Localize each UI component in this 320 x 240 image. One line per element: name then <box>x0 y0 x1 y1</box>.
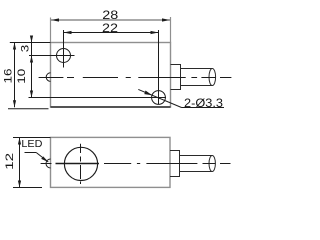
hole 2 circle <box>152 91 166 105</box>
dimension 22 line <box>64 32 159 34</box>
top view plug cylinder <box>181 69 216 86</box>
bottom view centerline <box>41 163 231 165</box>
dimension 28 extension line right <box>170 17 172 43</box>
top view left-edge semicircle <box>46 73 50 82</box>
dimension 12 line <box>19 138 21 188</box>
dimension 10 top arrow <box>30 56 33 63</box>
LED leader arrow <box>41 156 48 162</box>
2-Ø3.3 leader underline <box>182 107 225 109</box>
hole 1 circle <box>57 49 71 63</box>
top view body bottom edge (dark) <box>51 106 171 108</box>
dimension 22 right arrow <box>151 31 159 34</box>
dimension 3 outside arrow <box>30 36 33 43</box>
bottom view big circle <box>64 147 97 180</box>
bottom view vertical centerline <box>80 144 82 184</box>
hole 1 horizontal extension line <box>29 55 75 57</box>
bottom edge extension line <box>8 108 49 110</box>
dimension 12 bottom extension line <box>13 187 42 189</box>
LED leader underline <box>25 152 37 154</box>
LED leader diagonal <box>36 153 48 163</box>
bottom view connector block <box>170 151 180 177</box>
svg-text:12: 12 <box>4 153 16 170</box>
dimension 16 bottom arrow <box>13 100 16 107</box>
dimension 16 line <box>14 43 16 108</box>
top view body rectangle <box>51 43 171 108</box>
svg-text:10: 10 <box>16 69 28 84</box>
top view centerline <box>39 77 232 79</box>
dimension 12 top extension line <box>13 137 51 139</box>
svg-text:22: 22 <box>102 21 118 35</box>
dimension 28 right arrow <box>162 18 170 21</box>
dimension 28 extension line left <box>50 18 52 43</box>
dimension 12 bottom arrow <box>18 181 21 188</box>
dimension 22 left arrow <box>64 31 72 34</box>
hole 2 horizontal extension line <box>29 97 167 99</box>
hole 1 vertical extension line <box>63 30 65 68</box>
2-Ø3.3 leader line <box>138 89 181 107</box>
dimension 12 top arrow <box>18 138 21 145</box>
svg-text:LED: LED <box>21 139 42 150</box>
svg-text:2-Ø3.3: 2-Ø3.3 <box>184 96 223 110</box>
dimension 28 line <box>51 19 170 21</box>
dimension 10 bottom arrow <box>30 91 33 98</box>
svg-text:3: 3 <box>20 45 32 53</box>
svg-text:16: 16 <box>2 69 14 84</box>
hole 2 vertical extension line <box>158 30 160 104</box>
2-Ø3.3 leader arrow <box>144 91 152 96</box>
dimension 16 top arrow <box>13 43 16 50</box>
dimension 28 left arrow <box>51 18 59 21</box>
top edge extension line <box>10 42 51 44</box>
dimension 3-10 line <box>31 37 33 98</box>
bottom view plug cylinder <box>180 156 216 172</box>
top view connector block <box>171 65 181 90</box>
bottom view body rectangle <box>51 137 171 187</box>
LED semicircle <box>46 159 51 168</box>
